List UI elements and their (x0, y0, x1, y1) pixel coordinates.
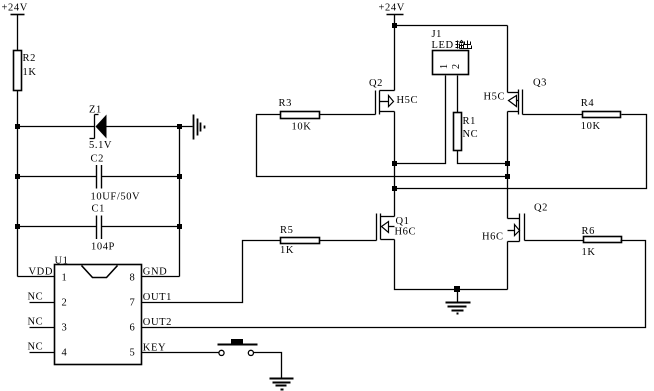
node junction left rail / R4 wire (392, 186, 397, 191)
svg-text:NC: NC (28, 342, 44, 353)
node junction ground wire (454, 286, 460, 292)
wire ground stem (457, 290, 459, 303)
node junction left rail / C1 row (15, 224, 20, 229)
wire top rail to Q3 drain (507, 26, 509, 93)
capacitor C1 104P (91, 204, 115, 253)
wire left rail (17, 91, 19, 277)
svg-text:OUT1: OUT1 (143, 292, 172, 303)
wire power to R2 (17, 15, 19, 51)
svg-text:1: 1 (62, 272, 68, 283)
svg-text:1K: 1K (280, 245, 294, 256)
wire switch to ground (254, 353, 282, 379)
svg-text:5.1V: 5.1V (89, 140, 112, 151)
wire Q1 source down (395, 240, 508, 290)
svg-text:Q1: Q1 (396, 216, 410, 227)
transistor Q2 (lower-right MOSFET H6C) (482, 203, 548, 243)
wire KEY (pin5 to switch) (142, 352, 219, 354)
wire NC stub pin2 (30, 302, 55, 304)
svg-text:H6C: H6C (482, 232, 504, 243)
resistor R6 (582, 226, 622, 258)
wire R3 left / cross-couple to right rail (257, 115, 508, 177)
svg-text:C1: C1 (92, 204, 105, 215)
wire C2 row left (18, 176, 97, 178)
svg-text:LED: LED (432, 40, 454, 51)
wire OUT2 (pin6 to R6 riser) (142, 241, 646, 328)
svg-text:1: 1 (439, 63, 450, 69)
svg-text:H6C: H6C (395, 227, 417, 238)
transistor Q3 (upper-right MOSFET H5C) (484, 78, 548, 115)
ground (right of zener, bar style) (194, 115, 205, 140)
wire OUT1 (pin7 to R5 riser) (142, 241, 281, 303)
wire right output rail (507, 112, 509, 219)
svg-text:2: 2 (62, 298, 68, 309)
svg-text:8: 8 (130, 272, 136, 283)
svg-text:C2: C2 (91, 154, 104, 165)
node junction right rail / R3 wire (505, 174, 510, 179)
svg-text:KEY: KEY (143, 342, 166, 353)
svg-text:5: 5 (130, 348, 136, 359)
svg-text:U1: U1 (55, 256, 69, 267)
svg-text:Q2: Q2 (534, 203, 548, 214)
svg-text:+24V: +24V (2, 2, 28, 13)
node junction right rail / R1 (505, 161, 510, 166)
op-amp U1 (8-pin IC body) (55, 256, 142, 365)
capacitor C2 10UF/50V (91, 154, 141, 203)
svg-text:J1: J1 (432, 29, 443, 40)
wire C2 row right (102, 176, 180, 178)
ground (below switch) (270, 379, 294, 390)
wire C1 row right (102, 226, 180, 228)
node junction zener row / right rail (177, 124, 182, 129)
wire zener row left (18, 126, 95, 128)
label LED output CJK glyph 1 (456, 41, 464, 49)
transistor Q1 (lower-left MOSFET H6C) (377, 214, 417, 241)
wire zener row right (107, 126, 193, 128)
power +24V (left) (2, 2, 28, 14)
connector J1 LED output (432, 29, 469, 75)
svg-text:104P: 104P (91, 242, 115, 253)
svg-text:6: 6 (130, 323, 136, 334)
node junction left rail / C2 row (15, 174, 20, 179)
svg-text:VDD: VDD (29, 266, 54, 277)
wire left rail to VDD pin (18, 276, 55, 278)
svg-text:4: 4 (62, 348, 68, 359)
switch KEY pushbutton (218, 339, 258, 356)
svg-text:NC: NC (28, 292, 44, 303)
wire Q2 source down (507, 242, 509, 290)
zener diode Z1 5.1V (89, 105, 112, 151)
svg-text:NC: NC (28, 317, 44, 328)
wire R5 right to Q1 gate (320, 240, 377, 242)
wire R1 bottom to right rail (458, 151, 508, 164)
svg-text:NC: NC (463, 129, 479, 140)
svg-text:+24V: +24V (379, 2, 405, 13)
svg-text:Q2: Q2 (369, 78, 383, 89)
svg-text:H5C: H5C (484, 92, 506, 103)
resistor R4 (581, 98, 621, 132)
wire Q2 gate to R6 (525, 240, 584, 242)
svg-text:10K: 10K (581, 121, 601, 132)
svg-text:2: 2 (451, 63, 462, 69)
wire J1 pin2 to R1 (457, 76, 459, 113)
transistor Q2 (upper-left MOSFET H5C) (369, 78, 418, 115)
label LED output CJK glyph 2 (464, 41, 472, 49)
wire R3 right to Q2 gate (320, 114, 376, 116)
svg-text:R1: R1 (463, 116, 476, 127)
svg-text:R6: R6 (582, 226, 595, 237)
svg-text:R3: R3 (279, 98, 292, 109)
node junction left rail / zener row (15, 124, 20, 129)
resistor R1 NC (454, 113, 479, 151)
wire J1 pin1 to left output (395, 76, 446, 164)
wire C1 row left (18, 226, 97, 228)
svg-text:10UF/50V: 10UF/50V (91, 192, 141, 203)
wire top rail (395, 25, 508, 27)
resistor R3 (279, 98, 320, 132)
wire NC stub pin4 (30, 352, 55, 354)
ground (H-bridge) (446, 303, 471, 314)
svg-text:GND: GND (143, 266, 168, 277)
resistor R5 (280, 225, 320, 256)
wire Q3 gate to R4 (523, 114, 583, 116)
svg-text:OUT2: OUT2 (143, 317, 172, 328)
node junction right rail / C1 row (177, 224, 182, 229)
svg-text:1K: 1K (582, 247, 596, 258)
svg-text:R2: R2 (23, 53, 36, 64)
svg-text:Z1: Z1 (89, 105, 102, 116)
wire NC stub pin3 (30, 327, 55, 329)
svg-text:R5: R5 (280, 225, 293, 236)
svg-text:Q3: Q3 (533, 78, 547, 89)
svg-text:R4: R4 (581, 98, 595, 109)
svg-text:7: 7 (130, 298, 136, 309)
node junction right rail / C2 row (177, 174, 182, 179)
resistor R2 (14, 51, 37, 91)
wire top rail to Q2 drain (394, 26, 396, 91)
wire power stem (394, 15, 396, 26)
svg-text:1K: 1K (23, 67, 37, 78)
svg-text:10K: 10K (292, 121, 312, 132)
wire right rail (zener row to GND pin) (179, 127, 181, 277)
wire R4 right / cross-couple to left output (395, 115, 647, 189)
node junction left rail / J1 pin1 (392, 161, 397, 166)
power +24V (right) (379, 2, 405, 14)
svg-text:3: 3 (62, 323, 68, 334)
svg-text:H5C: H5C (397, 95, 419, 106)
wire left output rail (394, 112, 396, 217)
wire right rail to GND pin (142, 276, 180, 278)
node junction top rail (392, 23, 397, 28)
